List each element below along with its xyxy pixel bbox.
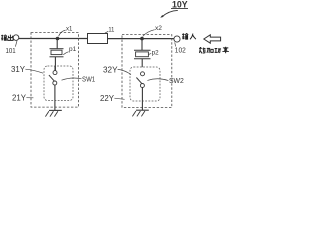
leader 31Y (25, 69, 43, 73)
terminal 101 circle (13, 35, 19, 41)
leader x2 (143, 30, 155, 37)
ground right (132, 110, 148, 116)
leader 102 (175, 42, 176, 46)
svg-text:x2: x2 (155, 25, 162, 32)
leader 32Y (118, 69, 131, 74)
leader x1 (59, 30, 66, 36)
svg-text:21Y: 21Y (12, 93, 27, 102)
parallel resonator p2 (134, 39, 151, 67)
svg-text:10Y: 10Y (172, 0, 188, 10)
terminal 102 circle (174, 36, 180, 42)
svg-text:31Y: 31Y (11, 65, 26, 74)
svg-text:SW1: SW1 (82, 75, 95, 84)
leader 11 (104, 31, 108, 33)
svg-text:32Y: 32Y (103, 65, 118, 74)
outer dashed box right (22Y) (122, 35, 172, 108)
svg-text:11: 11 (108, 26, 114, 33)
wire: resonator 11 to terminal 102 (108, 38, 174, 40)
leader 101 (15, 41, 17, 47)
switch SW1 (49, 66, 57, 110)
svg-text:p1: p1 (69, 46, 77, 53)
svg-text:102: 102 (175, 46, 186, 55)
outer dashed box left (21Y) (31, 33, 79, 108)
inner dashed box right (32Y) (130, 67, 160, 101)
svg-text:x1: x1 (66, 26, 73, 33)
parallel resonator p1 (50, 39, 64, 71)
svg-text:101: 101 (6, 46, 16, 55)
inner dashed box left (31Y) (44, 66, 73, 101)
wire: terminal 101 to resonator 11 (19, 38, 88, 40)
series resonator 11 (88, 34, 108, 44)
node x1 junction dot (56, 37, 60, 41)
svg-text:p2: p2 (152, 50, 159, 57)
node x2 junction dot (140, 37, 144, 41)
leader 21Y (26, 97, 33, 99)
leader p1 (63, 52, 68, 55)
ground left (45, 110, 61, 116)
leader p2 (148, 53, 151, 54)
underline 10Y (171, 8, 188, 10)
label 施加功率 (applied power) (199, 47, 205, 53)
leader SW1 (62, 78, 82, 80)
leader SW2 (147, 79, 168, 81)
svg-text:22Y: 22Y (100, 94, 115, 103)
switch SW2 (136, 72, 144, 110)
power-in hollow arrow (204, 35, 221, 43)
svg-text:SW2: SW2 (169, 76, 184, 85)
label 输入 (input) (182, 33, 188, 39)
leader 22Y (114, 98, 124, 99)
arrow 10Y (162, 10, 178, 16)
label 输出 (output) (1, 35, 7, 41)
